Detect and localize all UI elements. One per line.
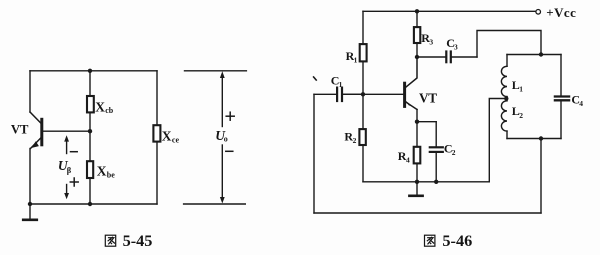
svg-text:X: X bbox=[162, 129, 172, 144]
voltage arrow Ubeta (up arrow) bbox=[64, 135, 69, 153]
ground (fig 5-46) bbox=[409, 182, 422, 196]
wire: base wire to VT bbox=[343, 93, 403, 95]
wire: left return column bbox=[313, 94, 315, 213]
caption 图 5-46 bbox=[425, 231, 473, 250]
junction node: bottom of Xbe column bbox=[88, 202, 92, 206]
label Xcb bbox=[95, 99, 114, 115]
label C1 bbox=[331, 73, 343, 89]
voltage arrow Uo (down half) bbox=[220, 145, 225, 204]
junction node: C2 bottom bbox=[434, 180, 438, 184]
wire: emitter bottom rail bbox=[363, 181, 489, 183]
wire: R1 column bbox=[362, 11, 364, 94]
label plus (Uo) bbox=[226, 112, 234, 120]
junction node: top of Xcb column bbox=[88, 69, 92, 73]
label Xbe bbox=[97, 164, 116, 180]
wire: R4 column bbox=[416, 122, 418, 182]
transistor VT (fig 5-45) bbox=[30, 112, 42, 149]
ground (fig 5-45) bbox=[23, 204, 37, 220]
voltage arrow Ubeta (down arrow) bbox=[64, 185, 69, 200]
junction node: emitter-bottom bbox=[28, 202, 32, 206]
label R2 bbox=[344, 129, 356, 145]
label L1 bbox=[512, 78, 523, 94]
wire: bottom rail fig5-45 bbox=[30, 203, 157, 205]
wire: right column (Xce branch) bbox=[156, 71, 158, 204]
svg-text:VT: VT bbox=[11, 122, 29, 136]
wire: C3 to tank top bbox=[477, 31, 541, 58]
junction node: top rail / R3 bbox=[415, 9, 419, 13]
wire: middle column (Xcb/Xbe branch) bbox=[89, 71, 91, 204]
svg-text:3: 3 bbox=[454, 43, 458, 52]
resistor R2 body bbox=[359, 129, 365, 145]
svg-text:o: o bbox=[224, 135, 228, 144]
inductor L1 bbox=[501, 55, 507, 99]
label minus (Uo) bbox=[226, 150, 233, 152]
caption 图 5-45 bbox=[105, 231, 152, 250]
junction node: coil tap bbox=[504, 96, 508, 100]
resistor R3 body bbox=[414, 27, 420, 43]
junction node: R4 bottom bbox=[415, 180, 419, 184]
wire: tank top bbox=[507, 54, 561, 56]
capacitor C3 bbox=[417, 52, 477, 63]
wire: right return column bbox=[540, 139, 542, 214]
svg-text:5-45: 5-45 bbox=[123, 231, 153, 250]
svg-text:2: 2 bbox=[353, 136, 357, 145]
junction node: emitter bbox=[415, 120, 419, 124]
label Uo bbox=[215, 128, 228, 144]
wire: base wire fig5-45 bbox=[43, 130, 90, 132]
wire: bottom return rail bbox=[314, 212, 541, 214]
label plus (Ubeta) bbox=[70, 178, 78, 186]
wire: tap column to coil midpoint bbox=[489, 99, 505, 182]
svg-text:1: 1 bbox=[519, 85, 523, 94]
wire: left column upper (collector lead) bbox=[29, 71, 31, 112]
capacitor C2 bbox=[417, 122, 443, 182]
svg-text:be: be bbox=[107, 171, 115, 180]
svg-text:ce: ce bbox=[172, 136, 180, 145]
label Ubeta bbox=[58, 158, 72, 175]
stray tick mark bbox=[314, 77, 317, 80]
wire: +Vcc top rail bbox=[363, 10, 536, 12]
label Xce bbox=[162, 129, 180, 145]
label L2 bbox=[512, 104, 523, 120]
resistor R1 body bbox=[360, 44, 367, 61]
svg-text:VT: VT bbox=[419, 91, 437, 106]
svg-text:X: X bbox=[95, 99, 105, 114]
svg-text:X: X bbox=[97, 164, 107, 179]
junction node: tank top bbox=[539, 52, 543, 56]
output port: bottom line bbox=[184, 203, 246, 205]
junction node: base/R1/R2 bbox=[361, 92, 365, 96]
svg-text:cb: cb bbox=[105, 106, 114, 115]
svg-text:4: 4 bbox=[579, 99, 583, 108]
output port: top line bbox=[185, 70, 247, 72]
wire: top rail fig5-45 bbox=[30, 70, 157, 72]
junction node: collector/R3/C3 bbox=[415, 55, 419, 59]
svg-text:1: 1 bbox=[339, 80, 343, 89]
label C3 bbox=[446, 36, 458, 52]
svg-text:2: 2 bbox=[452, 148, 456, 157]
wire: R3 column bbox=[416, 11, 418, 57]
transistor VT (fig 5-46) bbox=[405, 57, 417, 122]
svg-text:4: 4 bbox=[406, 156, 410, 165]
label +Vcc bbox=[546, 5, 576, 20]
svg-text:2: 2 bbox=[519, 111, 523, 120]
label C4 bbox=[571, 93, 583, 109]
label C2 bbox=[444, 142, 456, 158]
wire: left column lower (emitter lead) bbox=[29, 149, 31, 205]
junction node: base / Xcb-Xbe midpoint bbox=[88, 129, 92, 133]
terminal +Vcc (open circle) bbox=[536, 10, 541, 15]
svg-text:β: β bbox=[67, 165, 72, 175]
label minus (Ubeta) bbox=[71, 151, 78, 153]
voltage arrow Uo (up half) bbox=[220, 71, 225, 126]
resistor R4 body bbox=[414, 147, 421, 164]
inductor L2 bbox=[501, 99, 507, 139]
impedance Xce body bbox=[153, 125, 160, 141]
wire: tank bottom bbox=[507, 138, 561, 140]
wire: R2 column bbox=[362, 94, 364, 182]
svg-text:+Vcc: +Vcc bbox=[546, 5, 576, 20]
svg-text:1: 1 bbox=[354, 56, 358, 65]
impedance Xbe body bbox=[87, 161, 93, 178]
svg-text:3: 3 bbox=[429, 38, 433, 47]
label R4 bbox=[398, 149, 410, 165]
impedance Xcb body bbox=[87, 96, 94, 112]
svg-text:5-46: 5-46 bbox=[442, 231, 472, 250]
capacitor C4 bbox=[555, 55, 569, 139]
capacitor C1 bbox=[314, 88, 363, 101]
label R3 bbox=[421, 31, 433, 47]
label R1 bbox=[346, 49, 358, 65]
junction node: tank bottom bbox=[539, 136, 543, 140]
